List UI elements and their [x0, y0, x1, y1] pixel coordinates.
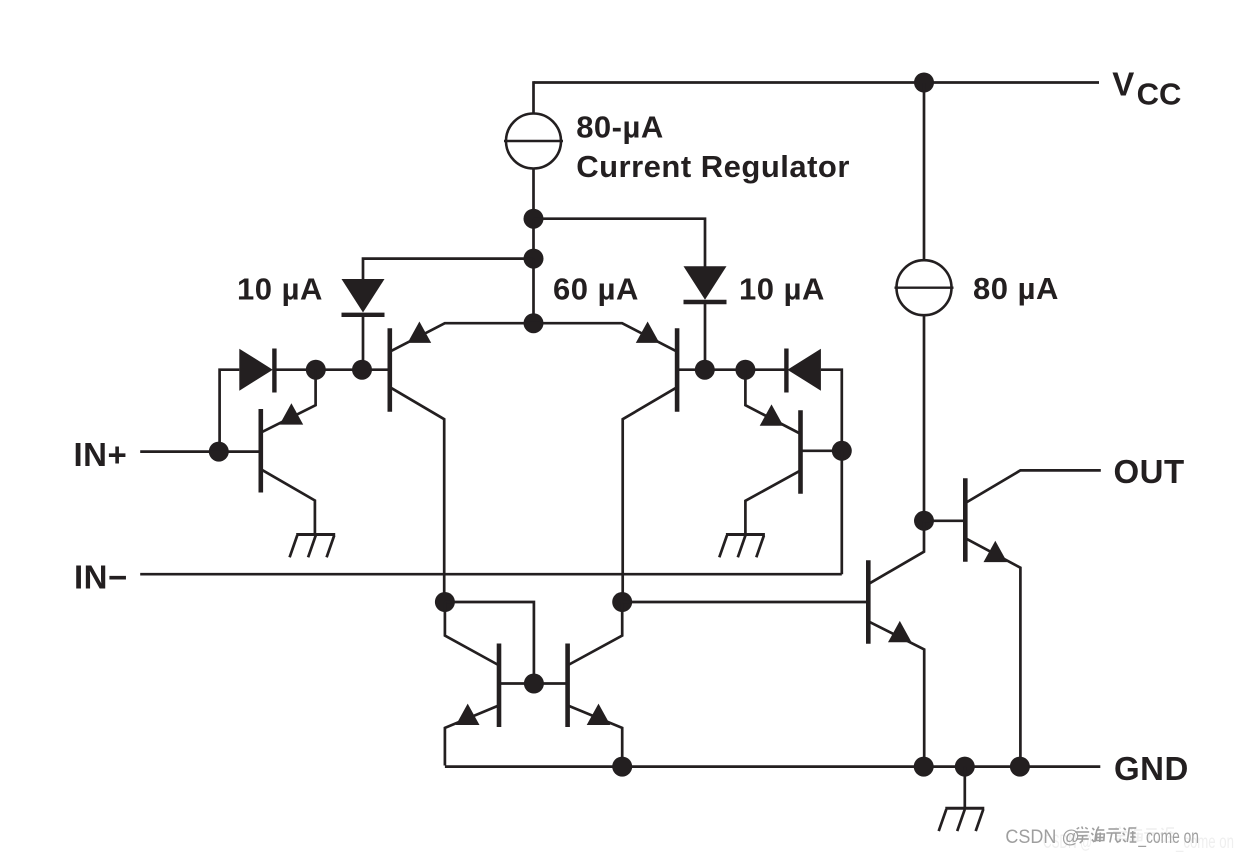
transistor Q1 emitter arrow [408, 322, 432, 343]
wire mirror output link [622, 601, 866, 604]
svg-text:80 µA: 80 µA [973, 271, 1059, 306]
node A (regulator output) [524, 209, 544, 229]
node F (D2 junction) [695, 360, 715, 380]
node IN+ junction [209, 442, 229, 462]
label 10 uA left [237, 272, 323, 307]
svg-text:GND: GND [1114, 750, 1189, 787]
ground (main) [939, 808, 985, 831]
label 60 uA [553, 272, 639, 307]
wire ground stub [963, 767, 966, 809]
transistor Q2 collector [623, 388, 677, 602]
wire D4 anode lead [821, 370, 842, 451]
transistor Q4 collector [745, 471, 800, 535]
label VCC [1112, 65, 1181, 111]
label OUT [1114, 453, 1185, 490]
transistor Q5 collector [445, 602, 499, 665]
transistor Q7 emitter [869, 622, 924, 766]
diode D2 (right 10 uA) [684, 266, 727, 302]
wire Q8 base link [924, 519, 965, 522]
wire regulator bottom lead [532, 169, 535, 220]
node E (D1 junction) [352, 360, 372, 380]
ground (left clamp) [290, 535, 336, 558]
transistor Q2 emitter arrow [636, 322, 660, 343]
transistor Q3 emitter arrow [280, 403, 304, 424]
svg-text:10 µA: 10 µA [237, 272, 323, 307]
wire VCC rail [534, 81, 1100, 84]
wire node A to right diode [534, 219, 706, 268]
transistor Q5 emitter [445, 706, 499, 766]
node Q (ground stub) [955, 757, 975, 777]
transistor Q8 emitter arrow [984, 541, 1008, 562]
label 80-uA [576, 110, 664, 145]
transistor Q8 base bar [963, 478, 968, 562]
svg-text:Current Regulator: Current Regulator [576, 149, 850, 184]
transistor Q7 base bar [866, 560, 871, 644]
wire Q7 collector riser [869, 521, 924, 584]
transistor Q1 base bar [387, 328, 392, 412]
node H (Q4 base node) [832, 441, 852, 461]
transistor Q3 base bar [258, 409, 263, 493]
wire I2 top lead [923, 83, 926, 261]
transistor Q3 emitter [261, 370, 315, 433]
label IN+ [74, 436, 128, 473]
transistor Q5 emitter arrow [456, 704, 480, 725]
wire IN+ lead [140, 450, 259, 453]
node VCC junction [914, 73, 934, 93]
node K (Q2 collector / mirror output) [612, 592, 632, 612]
wire mirror diode link [445, 602, 534, 684]
wire regulator top lead [532, 81, 535, 114]
transistor Q2 base bar [675, 328, 680, 412]
transistor Q1 collector [391, 388, 445, 602]
current source I1 80-uA current regulator [504, 114, 563, 169]
transistor Q4 base bar [798, 410, 803, 494]
svg-text:V: V [1112, 65, 1134, 102]
node B (left diode tap) [524, 249, 544, 269]
watermark CSDN [1005, 827, 1234, 854]
svg-text:60 µA: 60 µA [553, 272, 639, 307]
transistor Q6 emitter arrow [587, 704, 611, 725]
label Current Regulator [576, 149, 850, 184]
diode D4 (IN- clamp) [786, 349, 821, 393]
svg-text:10 µA: 10 µA [739, 272, 825, 307]
wire D1 cathode to left base line [362, 315, 365, 370]
svg-text:80-µA: 80-µA [576, 110, 664, 145]
wire IN- lead [140, 573, 842, 576]
label GND [1114, 750, 1189, 787]
label IN- [74, 558, 128, 595]
label 10 uA right [739, 272, 825, 307]
node R (Q8 emitter on GND) [1010, 757, 1030, 777]
node P (Q7 emitter on GND) [914, 757, 934, 777]
wire node A to node B [532, 219, 535, 259]
transistor Q4 emitter arrow [760, 404, 784, 425]
svg-text:_come on: _come on [1138, 827, 1199, 848]
svg-text:IN−: IN− [74, 558, 128, 595]
node N (Q6 emitter on GND) [612, 757, 632, 777]
transistor Q3 collector [261, 470, 315, 535]
label 80 uA [973, 271, 1059, 306]
wire IN- riser [840, 451, 843, 574]
transistor Q1 emitter [391, 323, 534, 351]
wire node B to node C [532, 259, 535, 324]
wire D2 cathode to right base line [704, 302, 707, 370]
wire left base line [274, 368, 390, 371]
transistor Q8 collector [966, 470, 1101, 502]
node G (right clamp tap) [735, 360, 755, 380]
transistor Q6 emitter [568, 706, 622, 766]
wire node B to left diode [363, 259, 534, 280]
wire right base line [677, 368, 787, 371]
wire mirror base link [499, 682, 568, 685]
wire Q4 base link [801, 449, 842, 452]
diode D3 (IN+ clamp) [239, 349, 274, 393]
transistor Q8 emitter [966, 539, 1020, 766]
wire D3 anode lead [220, 370, 240, 452]
diode D1 (left 10 uA) [342, 279, 385, 315]
node C (common emitters, 60 uA) [524, 313, 544, 333]
transistor Q7 emitter arrow [888, 621, 912, 642]
transistor Q5 base bar [497, 644, 502, 728]
current source I2 80 uA [895, 260, 954, 315]
node J (Q1 collector / mirror input) [435, 592, 455, 612]
svg-text:OUT: OUT [1114, 453, 1185, 490]
transistor Q6 collector [568, 602, 622, 665]
svg-text:CC: CC [1137, 77, 1182, 112]
svg-text:IN+: IN+ [74, 436, 128, 473]
wire I2 bottom lead [923, 316, 926, 522]
node L (mirror common base) [524, 674, 544, 694]
svg-text:CSDN: CSDN [1005, 827, 1056, 848]
ground (right clamp) [719, 535, 765, 558]
svg-text:@: @ [1062, 827, 1080, 847]
node D (left clamp tap) [306, 360, 326, 380]
transistor Q4 emitter [745, 370, 800, 434]
node M (Q7 collector / Q8 base) [914, 511, 934, 531]
transistor Q2 emitter [534, 323, 677, 351]
wire GND rail [445, 765, 1100, 768]
transistor Q6 base bar [565, 644, 570, 728]
